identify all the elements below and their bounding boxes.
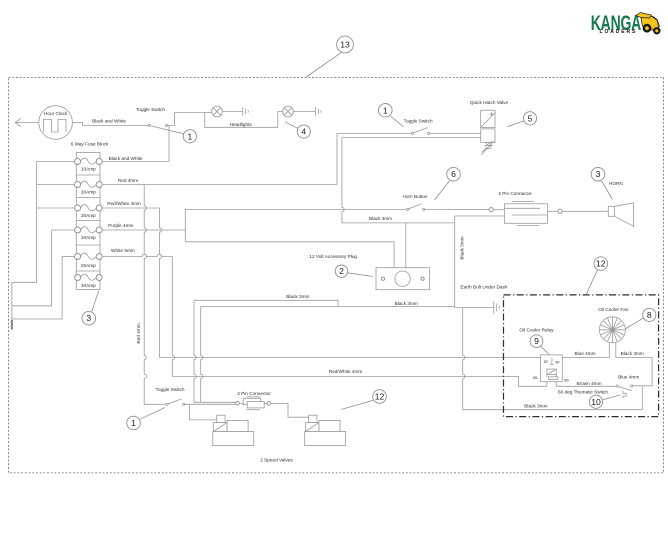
svg-text:White 5mm: White 5mm: [111, 248, 135, 253]
svg-text:Red 4mm: Red 4mm: [118, 178, 138, 183]
callout 1 (headlight toggle switch): [171, 130, 197, 143]
svg-text:Black 3mm: Black 3mm: [395, 301, 418, 306]
earth bolt under dash: [455, 284, 508, 313]
callout 13 (harness boundary): [306, 36, 354, 77]
wire accessory plug feed: [185, 242, 394, 268]
oil cooler relay: [519, 328, 569, 383]
callout 8 (oil cooler fan): [625, 308, 656, 329]
valve ground return wire 2 (Black 3mm): [201, 306, 455, 308]
earth symbol lamp1: [243, 107, 248, 116]
svg-text:Toggle Switch: Toggle Switch: [156, 387, 185, 392]
svg-text:Hour Clock: Hour Clock: [44, 111, 68, 116]
wire Red 4mm drop to lower toggle switch: [144, 185, 166, 405]
wire fuse1 left to bus1: [37, 161, 75, 163]
svg-text:10Amp: 10Amp: [81, 283, 96, 288]
svg-text:Red/White 4mm: Red/White 4mm: [107, 201, 141, 206]
svg-text:10Amp: 10Amp: [81, 235, 96, 240]
svg-text:Blue 4mm: Blue 4mm: [574, 351, 595, 356]
callout 6 (horn button): [435, 167, 461, 200]
svg-text:Toggle Switch: Toggle Switch: [136, 107, 165, 112]
wire fan right lead (Black 3mm) down right side: [616, 343, 652, 386]
svg-text:6 Way Fuse Block: 6 Way Fuse Block: [71, 141, 109, 146]
svg-text:Black 3mm: Black 3mm: [460, 236, 465, 259]
2 pin connector (valves): [236, 391, 272, 410]
wire fuse4 left to bus2: [52, 229, 75, 231]
ground drop to 2 speed valves: [194, 300, 238, 402]
wire White drop to relay coil feed: [172, 257, 174, 377]
callout 12 (oil cooler box): [586, 257, 608, 295]
fuse F4 10Amp: [75, 227, 103, 241]
svg-text:Black 3mm: Black 3mm: [621, 351, 644, 356]
wire switch to quick hatch valve: [430, 132, 481, 134]
wire fan left lead (Blue 4mm) to relay: [562, 343, 609, 358]
svg-text:2 Pin Connector: 2 Pin Connector: [498, 191, 532, 196]
oil cooler assembly boundary item 12 (dash-dot box): [504, 295, 659, 417]
svg-text:Headlights: Headlights: [230, 122, 253, 127]
svg-text:Black and White: Black and White: [92, 119, 126, 124]
svg-text:5: 5: [528, 113, 533, 123]
wire fuse3 left to bus1: [37, 207, 75, 209]
svg-text:HORN: HORN: [609, 181, 623, 186]
svg-text:85: 85: [533, 375, 538, 380]
wire lamp2 to earth: [293, 111, 315, 113]
callout 3 (horn): [591, 167, 612, 199]
svg-text:86: 86: [564, 378, 569, 383]
callout 3 (fuse block): [82, 291, 99, 325]
svg-text:87: 87: [544, 359, 549, 364]
Kanga Loaders logo: [591, 11, 661, 35]
svg-text:Horn Button: Horn Button: [402, 194, 427, 199]
svg-text:9: 9: [534, 336, 539, 346]
svg-text:2: 2: [339, 266, 344, 276]
wire hour clock to toggle switch (Black and White): [15, 122, 39, 124]
wire relay 86 to thermatic switch (Brown 4mm): [556, 382, 615, 387]
svg-text:2 Speed Valves: 2 Speed Valves: [260, 458, 293, 463]
hour clock meter: [39, 106, 73, 140]
svg-text:30: 30: [555, 359, 560, 364]
supply bus wires left of fuse block: [12, 162, 75, 329]
callout 4 (headlights): [285, 122, 311, 138]
earth symbol lamp2: [316, 107, 321, 116]
bus3 vertical: [12, 257, 62, 320]
svg-text:Red/White 4mm: Red/White 4mm: [329, 369, 363, 374]
wire fuse2 left to bus1: [37, 184, 75, 186]
wire switch to headlight 1: [169, 113, 212, 126]
wire fuse5 left to bus3: [62, 256, 75, 258]
wire accessory plug second pin drop: [405, 223, 407, 268]
wire lamp1 to earth: [222, 111, 242, 113]
wire relay 85 stub: [546, 382, 548, 387]
callout 5 (quick hatch valve): [508, 112, 537, 127]
svg-text:1: 1: [188, 131, 193, 141]
wire Red/White drop to relay feed: [159, 208, 161, 358]
wire branch to headlight 2: [205, 112, 283, 128]
wire Red/White 4mm fuse3 output: [102, 207, 159, 209]
valve ground return wire 1 (Black 3mm): [194, 300, 338, 306]
bus termination tick: [11, 320, 13, 330]
60 deg thermatic switch: [558, 385, 633, 398]
quick hatch valve feed wire from Red riser: [337, 133, 411, 184]
2 speed valve left: [213, 415, 254, 445]
svg-text:25Amp: 25Amp: [81, 213, 96, 218]
oil cooler fan: [598, 307, 629, 343]
svg-text:Black 3mm: Black 3mm: [286, 294, 309, 299]
svg-text:1: 1: [131, 418, 136, 428]
svg-text:6: 6: [451, 169, 456, 179]
svg-text:Black 3mm: Black 3mm: [524, 404, 547, 409]
svg-text:12 Volt Accessory Plug: 12 Volt Accessory Plug: [309, 254, 357, 259]
callout 9 (oil cooler relay): [530, 335, 549, 355]
toggle switch 1 (2 speed valves): [156, 387, 185, 406]
bus join vertical at border: [11, 282, 13, 328]
svg-text:3: 3: [86, 313, 91, 323]
earth drop wire to oil cooler ground: [463, 308, 643, 410]
fuse F3 25Amp: [75, 205, 103, 219]
2 pin connector (horn): [489, 191, 562, 226]
wire switch drop to left valve: [190, 404, 217, 420]
2 speed valve right: [305, 415, 346, 445]
svg-text:Toggle Switch: Toggle Switch: [404, 118, 433, 123]
svg-text:Oil Cooler Fan: Oil Cooler Fan: [598, 307, 629, 312]
wire Purple 4mm fuse4 output: [102, 229, 185, 231]
fuse F1 10Amp: [75, 158, 103, 172]
ground drop 2 to 2 speed valves: [201, 307, 203, 403]
svg-text:1: 1: [383, 105, 388, 115]
svg-text:12: 12: [596, 259, 606, 269]
callout 10 (thermatic switch): [589, 395, 620, 409]
wire horn connector ground to earth drop: [455, 216, 505, 308]
headlight lamp 2: [283, 106, 294, 117]
bus2 vertical: [12, 230, 52, 306]
svg-text:Black and White: Black and White: [109, 156, 143, 161]
svg-text:8: 8: [647, 310, 652, 320]
fuse F2 10Amp: [75, 181, 103, 195]
wire to oil cooler relay 87 (full width): [159, 357, 540, 359]
wire thermatic switch to ground drop: [633, 386, 643, 410]
fuse F5 25Amp: [75, 253, 103, 268]
purple node: horn feed + accessory feed: [185, 209, 405, 241]
headlight lamp 1: [212, 106, 223, 117]
svg-text:10Amp: 10Amp: [81, 190, 96, 195]
supply arrow terminal at hour clock: [15, 118, 21, 126]
wire connector to right valve: [271, 403, 309, 417]
svg-text:12: 12: [375, 392, 385, 402]
svg-text:Red 4mm: Red 4mm: [136, 323, 141, 343]
svg-text:Black 3mm: Black 3mm: [369, 216, 392, 221]
wire quick hatch valve ground (Black 3mm): [342, 138, 481, 223]
callout 12 (valve harness): [341, 390, 386, 410]
callout 1 (valve toggle switch): [379, 104, 404, 127]
svg-text:Oil Cooler Relay: Oil Cooler Relay: [519, 328, 554, 333]
svg-text:Quick Hatch Valve: Quick Hatch Valve: [470, 100, 509, 105]
callout 1 (2 speed valve toggle switch): [127, 408, 165, 430]
svg-text:10Amp: 10Amp: [81, 167, 96, 172]
toggle switch 1 (headlights): [136, 107, 170, 131]
harness boundary item 13 (dashed page border): [9, 78, 664, 473]
svg-text:Earth Bolt Under Dash: Earth Bolt Under Dash: [461, 284, 508, 289]
bus1 vertical: [12, 162, 37, 283]
wire White 5mm fuse5 output: [102, 254, 172, 256]
horn button: [402, 194, 427, 211]
6 way fuse block: [71, 141, 109, 289]
12 volt accessory plug: [309, 254, 429, 290]
fuse F6 10Amp spare: [75, 274, 103, 288]
wire Red 4mm fuse2 output to valve riser: [102, 184, 337, 186]
svg-text:Purple 4mm: Purple 4mm: [108, 223, 133, 228]
svg-text:4: 4: [301, 127, 306, 137]
svg-text:LOADERS: LOADERS: [600, 29, 638, 35]
quick hatch valve: [470, 100, 509, 155]
wire connector to horn: [562, 210, 608, 212]
svg-text:60 deg Thematic Switch: 60 deg Thematic Switch: [558, 390, 608, 395]
svg-text:2 Pin Connector: 2 Pin Connector: [237, 391, 271, 396]
svg-text:Brown 4mm: Brown 4mm: [576, 381, 601, 386]
wire horn button to connector: [425, 208, 489, 210]
wire switch to valve connector: [185, 403, 238, 405]
wire Black and White fuse1 output: [102, 161, 169, 163]
svg-text:3: 3: [596, 169, 601, 179]
horn speaker: [608, 181, 633, 227]
svg-text:Blue 4mm: Blue 4mm: [618, 375, 639, 380]
svg-text:10: 10: [591, 397, 601, 407]
wire fuse1 riser to switch contact: [168, 125, 170, 161]
svg-text:13: 13: [340, 40, 350, 50]
toggle switch 1 (quick hatch valve): [404, 118, 433, 134]
callout 2 (accessory plug): [335, 265, 373, 277]
svg-text:25Amp: 25Amp: [81, 263, 96, 268]
wire Red/White 4mm to relay coil (full width): [172, 376, 547, 386]
